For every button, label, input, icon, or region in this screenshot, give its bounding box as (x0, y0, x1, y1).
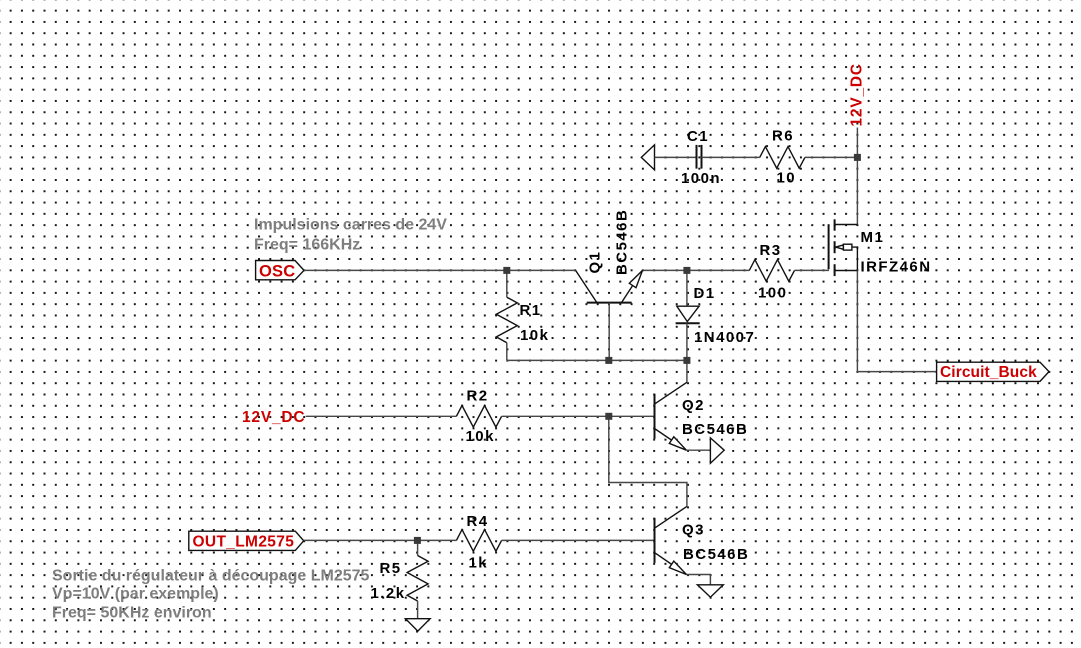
svg-text:R5: R5 (380, 560, 402, 577)
svg-text:M1: M1 (861, 229, 885, 246)
svg-text:12V_DC: 12V_DC (849, 63, 866, 126)
svg-text:10k: 10k (466, 428, 495, 445)
wire Q3 emitter to ground (686, 575, 710, 585)
svg-text:Vp=10V (par exemple): Vp=10V (par exemple) (52, 586, 219, 603)
svg-text:BC546B: BC546B (682, 421, 748, 438)
wire OUT_LM2575 to R4 (304, 539, 457, 541)
junction node Q1 base bottom (605, 357, 612, 364)
transistor Q1 BC546B (rotated, base down) (576, 209, 643, 361)
svg-text:BC546B: BC546B (683, 546, 749, 563)
svg-text:OUT_LM2575: OUT_LM2575 (193, 534, 295, 551)
svg-text:100: 100 (758, 285, 787, 302)
svg-text:1k: 1k (469, 555, 489, 572)
net label OSC (flag) (256, 261, 304, 281)
ground (Q2, pointing right) (710, 438, 724, 463)
resistor R4 1k (456, 513, 501, 572)
transistor Q2 BC546B (655, 382, 749, 450)
mosfet M1 IRFZ46N (829, 219, 932, 276)
wire ground to C1 (655, 156, 697, 158)
net label OUT_LM2575 (flag) (189, 531, 304, 550)
wire R2 to Q2 base (502, 415, 655, 417)
junction node Q1e/D1/R3 (683, 267, 690, 274)
wire D1 bottom to Q2 collector (686, 360, 688, 382)
svg-text:1.2k: 1.2k (371, 585, 406, 602)
svg-text:Q3: Q3 (682, 522, 705, 539)
svg-text:R4: R4 (467, 513, 489, 530)
svg-text:BC546B: BC546B (614, 209, 631, 275)
svg-text:Q2: Q2 (682, 397, 705, 414)
svg-text:Circuit_Buck: Circuit_Buck (940, 364, 1037, 381)
svg-text:Sortie du régulateur à découpa: Sortie du régulateur à découpage LM2575 (52, 568, 370, 585)
ground (R5) (406, 619, 431, 631)
svg-text:12V_DC: 12V_DC (242, 409, 305, 426)
junction node OSC/R1 (503, 267, 510, 274)
capacitor C1 100n (681, 128, 721, 187)
junction node D1 bottom (683, 357, 690, 364)
svg-text:R1: R1 (520, 302, 542, 319)
svg-text:Q1: Q1 (587, 251, 604, 274)
resistor R2 10k (456, 388, 501, 446)
svg-text:D1: D1 (694, 285, 716, 302)
svg-text:C1: C1 (687, 128, 709, 145)
svg-text:100n: 100n (681, 170, 721, 187)
svg-text:10k: 10k (520, 327, 549, 344)
svg-text:IRFZ46N: IRFZ46N (861, 258, 932, 275)
wire bottom net of Q1 base row (507, 359, 687, 361)
wire OSC to Q1 collector (304, 269, 576, 271)
wire R6 to 12V_DC node (805, 156, 858, 158)
wire 12V_DC to R2 (306, 415, 457, 417)
svg-text:Impulsions carres de 24V: Impulsions carres de 24V (254, 217, 447, 234)
svg-text:R6: R6 (772, 128, 794, 145)
resistor R6 10 (760, 128, 805, 187)
wire R3 to M1 gate (795, 269, 830, 271)
resistor R3 100 (749, 242, 794, 302)
diode D1 1N4007 (676, 270, 756, 360)
svg-text:R2: R2 (467, 388, 489, 405)
ground (left of C1) (641, 145, 654, 170)
wire R4 to Q3 base (502, 539, 655, 541)
comment text: Impulsions carres de 24V / Freq= 166KHz (254, 217, 447, 254)
wire M1 source to Circuit_Buck (857, 271, 936, 372)
junction node R5 top (414, 537, 421, 544)
comment text: Sortie du regulateur block (52, 568, 370, 622)
wire node Q2base down to Q3 collector link (609, 416, 687, 506)
net label Circuit_Buck (flag) (937, 362, 1049, 381)
transistor Q3 BC546B (655, 506, 750, 574)
ground (Q3, pointing down) (697, 585, 723, 597)
svg-text:OSC: OSC (259, 262, 295, 280)
resistor R1 10k (vertical) (496, 270, 549, 360)
svg-text:Freq= 50KHz environ: Freq= 50KHz environ (52, 604, 212, 621)
wire Q1 emitter to node D1 top (643, 269, 750, 271)
svg-text:R3: R3 (760, 242, 782, 259)
net 12V_DC vertical wire (856, 128, 858, 225)
wire C1 to R6 (702, 156, 760, 158)
junction node 12V top (854, 154, 861, 161)
svg-text:10: 10 (777, 169, 797, 186)
wire Q2 emitter to ground (686, 449, 710, 451)
svg-text:Freq= 166KHz: Freq= 166KHz (254, 237, 360, 254)
svg-text:1N4007: 1N4007 (694, 329, 755, 346)
resistor R5 1.2k (vertical) (371, 540, 429, 618)
junction node Q2 base (605, 413, 612, 420)
